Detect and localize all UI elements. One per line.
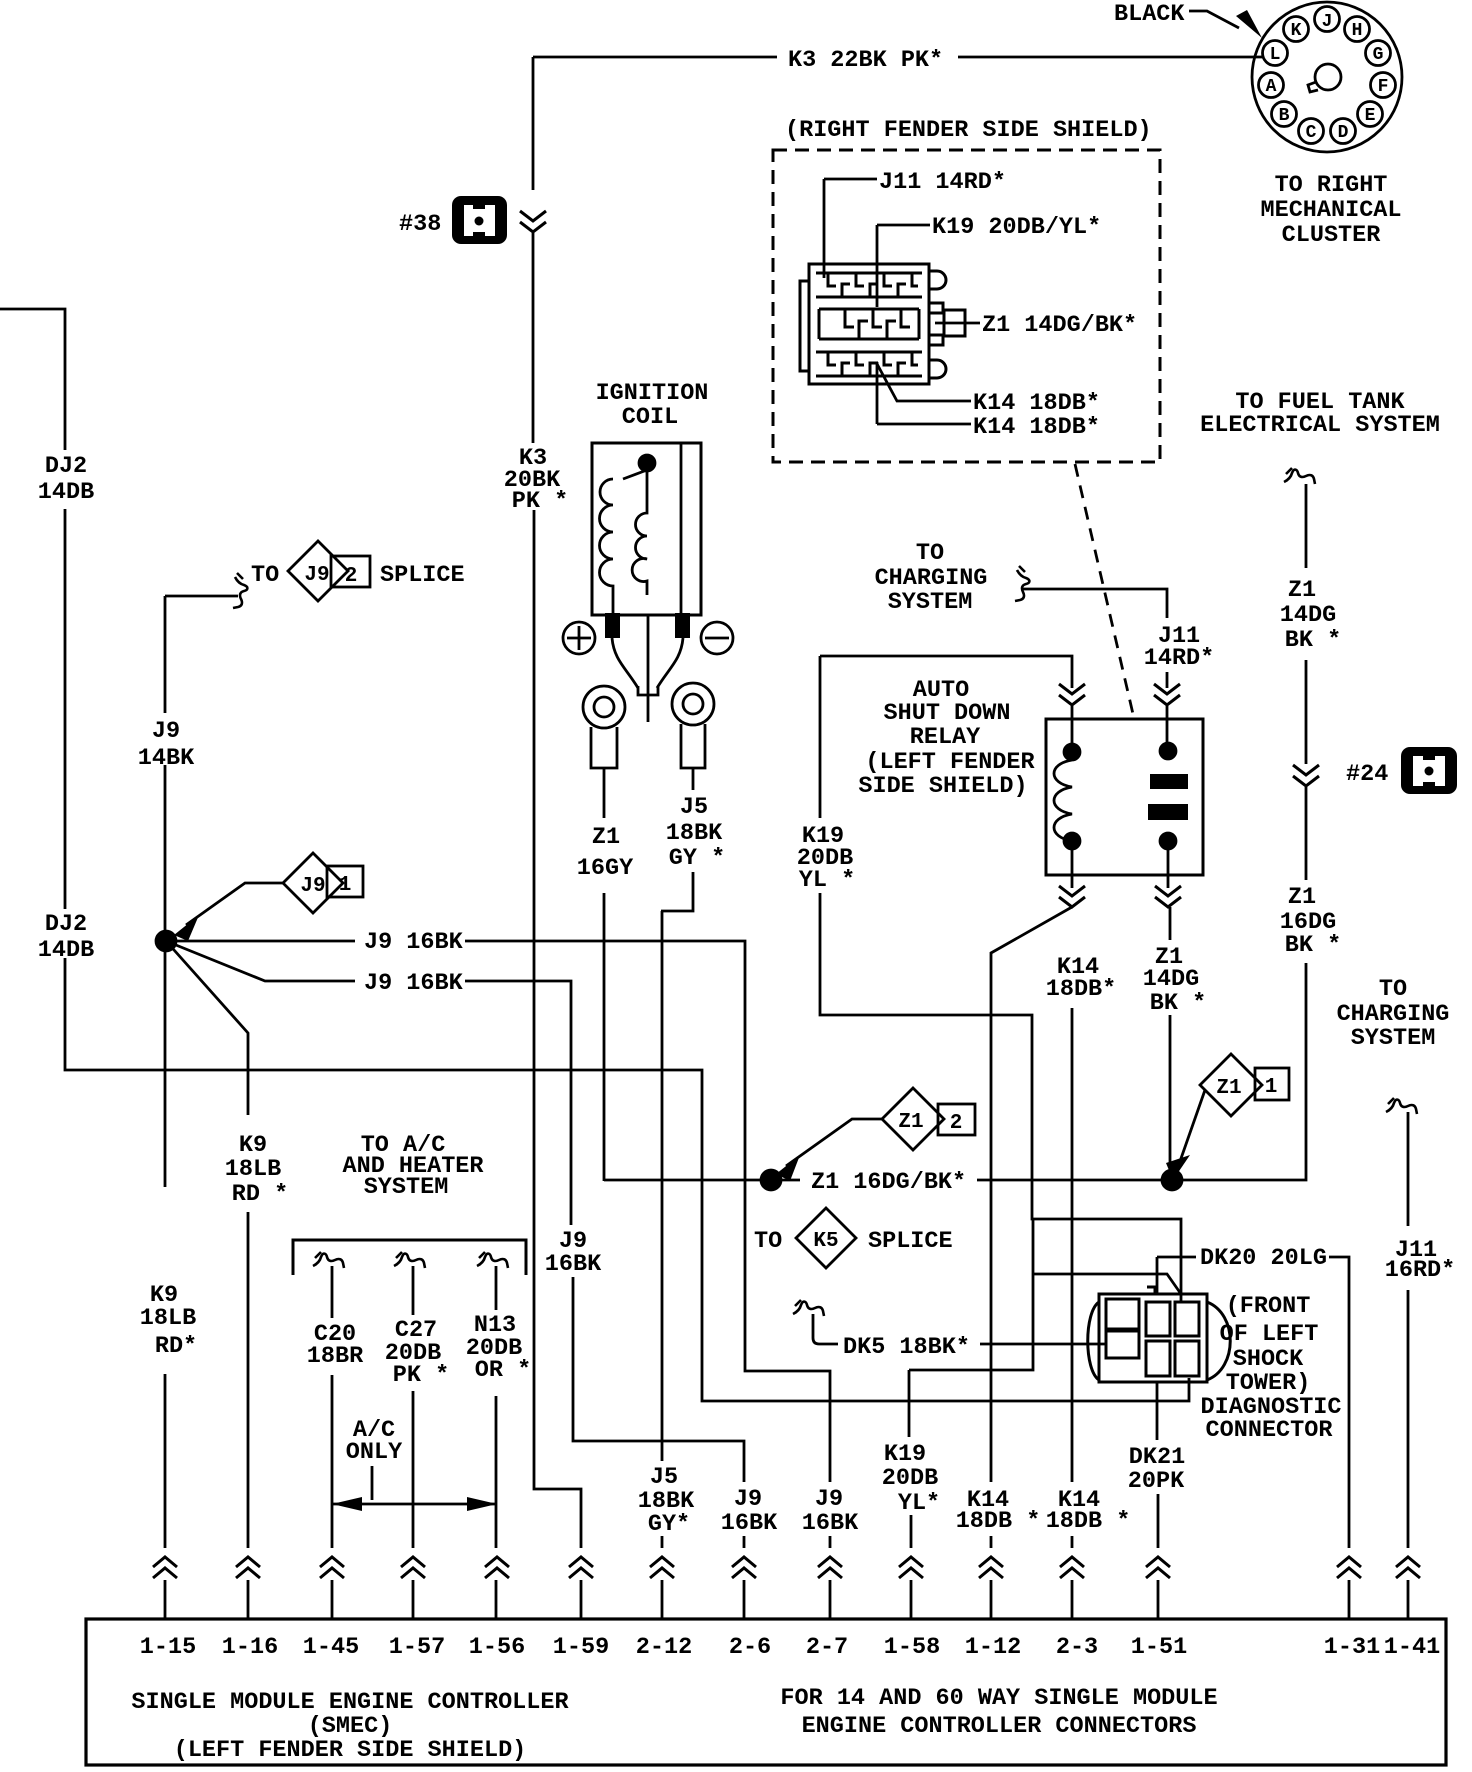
svg-text:DK20 20LG: DK20 20LG <box>1200 1245 1327 1272</box>
svg-text:2: 2 <box>950 1112 963 1135</box>
svg-text:J9: J9 <box>734 1486 762 1513</box>
svg-text:16BK: 16BK <box>545 1251 602 1278</box>
svg-text:L: L <box>1270 45 1281 65</box>
svg-text:H: H <box>1352 21 1363 41</box>
svg-text:K: K <box>1291 21 1302 41</box>
svg-text:20PK: 20PK <box>1128 1468 1185 1495</box>
svg-text:J: J <box>1322 12 1333 32</box>
svg-text:18LB: 18LB <box>225 1156 281 1183</box>
svg-text:14DG: 14DG <box>1143 966 1199 993</box>
svg-text:18BR: 18BR <box>307 1343 364 1370</box>
svg-text:18DB *: 18DB * <box>1046 1508 1131 1535</box>
svg-text:TO RIGHT: TO RIGHT <box>1275 172 1388 199</box>
svg-text:Z1: Z1 <box>1288 884 1316 911</box>
svg-text:(LEFT FENDER SIDE SHIELD): (LEFT FENDER SIDE SHIELD) <box>174 1737 527 1764</box>
svg-text:J11 14RD*: J11 14RD* <box>879 169 1006 196</box>
svg-text:YL*: YL* <box>898 1490 940 1517</box>
svg-text:SYSTEM: SYSTEM <box>1351 1025 1436 1052</box>
svg-text:MECHANICAL: MECHANICAL <box>1260 197 1401 224</box>
svg-text:16RD*: 16RD* <box>1385 1257 1456 1284</box>
svg-text:1: 1 <box>339 874 352 897</box>
svg-text:G: G <box>1373 45 1384 65</box>
svg-text:(FRONT: (FRONT <box>1226 1293 1311 1320</box>
svg-text:18LB: 18LB <box>140 1305 196 1332</box>
svg-text:TOWER): TOWER) <box>1226 1370 1311 1397</box>
svg-text:1-56: 1-56 <box>469 1634 525 1661</box>
svg-text:PK *: PK * <box>512 488 568 515</box>
svg-text:2: 2 <box>345 565 358 588</box>
svg-text:DK5 18BK*: DK5 18BK* <box>843 1334 970 1361</box>
svg-text:K19 20DB/YL*: K19 20DB/YL* <box>932 214 1101 241</box>
svg-text:DK21: DK21 <box>1129 1444 1185 1471</box>
svg-text:C: C <box>1306 123 1317 143</box>
svg-text:J9: J9 <box>815 1486 843 1513</box>
svg-text:1-31: 1-31 <box>1324 1634 1380 1661</box>
svg-text:14RD*: 14RD* <box>1144 645 1215 672</box>
svg-text:D: D <box>1338 123 1349 143</box>
svg-text:14DB: 14DB <box>38 937 94 964</box>
svg-text:J9: J9 <box>300 875 325 898</box>
svg-text:E: E <box>1365 106 1376 126</box>
svg-text:Z1 14DG/BK*: Z1 14DG/BK* <box>982 312 1137 339</box>
svg-text:TO: TO <box>754 1228 782 1255</box>
svg-text:GY*: GY* <box>648 1511 690 1538</box>
svg-text:2-3: 2-3 <box>1056 1634 1098 1661</box>
svg-text:16BK: 16BK <box>802 1510 859 1537</box>
svg-text:TO: TO <box>916 540 944 567</box>
svg-text:K19: K19 <box>884 1441 926 1468</box>
svg-text:J9: J9 <box>304 564 329 587</box>
svg-text:1-15: 1-15 <box>140 1634 196 1661</box>
svg-text:(RIGHT FENDER SIDE SHIELD): (RIGHT FENDER SIDE SHIELD) <box>785 117 1152 144</box>
svg-text:1-57: 1-57 <box>389 1634 445 1661</box>
svg-text:14DG: 14DG <box>1280 602 1336 629</box>
svg-text:SIDE SHIELD): SIDE SHIELD) <box>858 773 1027 800</box>
svg-text:J5: J5 <box>650 1464 678 1491</box>
svg-text:B: B <box>1279 106 1290 126</box>
svg-text:16BK: 16BK <box>721 1510 778 1537</box>
svg-text:2-7: 2-7 <box>806 1634 848 1661</box>
svg-text:J9 16BK: J9 16BK <box>364 929 464 956</box>
svg-text:YL *: YL * <box>799 867 855 894</box>
svg-text:RD *: RD * <box>232 1181 288 1208</box>
svg-text:J5: J5 <box>680 794 708 821</box>
svg-text:1-45: 1-45 <box>303 1634 359 1661</box>
svg-text:TO: TO <box>1379 976 1407 1003</box>
svg-text:ELECTRICAL SYSTEM: ELECTRICAL SYSTEM <box>1200 412 1440 439</box>
svg-text:SYSTEM: SYSTEM <box>364 1174 449 1201</box>
svg-text:16GY: 16GY <box>577 855 634 882</box>
svg-text:2-6: 2-6 <box>729 1634 771 1661</box>
svg-text:CONNECTOR: CONNECTOR <box>1206 1417 1334 1444</box>
svg-text:#24: #24 <box>1346 761 1388 788</box>
svg-text:1-12: 1-12 <box>965 1634 1021 1661</box>
svg-text:SPLICE: SPLICE <box>868 1228 953 1255</box>
svg-text:ONLY: ONLY <box>346 1439 403 1466</box>
svg-text:COIL: COIL <box>622 404 678 431</box>
svg-text:BK *: BK * <box>1150 990 1206 1017</box>
svg-text:BK *: BK * <box>1285 627 1341 654</box>
svg-text:Z1: Z1 <box>1288 577 1316 604</box>
svg-text:BLACK: BLACK <box>1114 1 1185 28</box>
svg-text:J9 16BK: J9 16BK <box>364 970 464 997</box>
svg-text:#38: #38 <box>399 211 441 238</box>
svg-text:1-58: 1-58 <box>884 1634 940 1661</box>
svg-text:Z1: Z1 <box>898 1111 923 1134</box>
svg-text:1-41: 1-41 <box>1384 1634 1440 1661</box>
svg-text:GY *: GY * <box>669 845 725 872</box>
svg-text:1: 1 <box>1265 1076 1278 1099</box>
svg-text:BK *: BK * <box>1285 932 1341 959</box>
svg-text:SINGLE MODULE ENGINE CONTROLLE: SINGLE MODULE ENGINE CONTROLLER <box>131 1689 569 1716</box>
svg-text:Z1: Z1 <box>1216 1077 1241 1100</box>
svg-text:K14 18DB*: K14 18DB* <box>973 390 1100 417</box>
svg-text:K14 18DB*: K14 18DB* <box>973 414 1100 441</box>
svg-text:1-51: 1-51 <box>1131 1634 1187 1661</box>
svg-text:SYSTEM: SYSTEM <box>888 589 973 616</box>
svg-text:J9: J9 <box>152 718 180 745</box>
svg-text:F: F <box>1378 77 1389 97</box>
svg-text:Z1: Z1 <box>592 824 620 851</box>
svg-text:(SMEC): (SMEC) <box>308 1713 393 1740</box>
svg-text:FOR 14 AND 60 WAY SINGLE MODUL: FOR 14 AND 60 WAY SINGLE MODULE <box>780 1685 1217 1712</box>
svg-text:K5: K5 <box>813 1230 838 1253</box>
svg-text:DJ2: DJ2 <box>45 911 87 938</box>
svg-text:18DB*: 18DB* <box>1046 976 1117 1003</box>
svg-text:1-16: 1-16 <box>222 1634 278 1661</box>
svg-text:CHARGING: CHARGING <box>1337 1001 1450 1028</box>
svg-text:18BK: 18BK <box>666 820 723 847</box>
svg-text:SHUT DOWN: SHUT DOWN <box>884 700 1011 727</box>
svg-text:TO: TO <box>251 562 279 589</box>
svg-text:ENGINE CONTROLLER CONNECTORS: ENGINE CONTROLLER CONNECTORS <box>802 1713 1197 1740</box>
svg-text:(LEFT FENDER: (LEFT FENDER <box>865 749 1035 776</box>
svg-text:Z1 16DG/BK*: Z1 16DG/BK* <box>811 1169 966 1196</box>
svg-text:CLUSTER: CLUSTER <box>1282 222 1382 249</box>
svg-text:20DB: 20DB <box>882 1465 938 1492</box>
svg-text:OR *: OR * <box>475 1357 531 1384</box>
svg-text:A: A <box>1266 77 1277 97</box>
svg-text:CHARGING: CHARGING <box>875 565 988 592</box>
svg-text:K9: K9 <box>239 1132 267 1159</box>
svg-text:SPLICE: SPLICE <box>380 562 465 589</box>
svg-text:2-12: 2-12 <box>636 1634 692 1661</box>
svg-text:DJ2: DJ2 <box>45 453 87 480</box>
svg-text:OF LEFT: OF LEFT <box>1220 1321 1319 1348</box>
svg-text:K3 22BK PK*: K3 22BK PK* <box>788 47 943 74</box>
svg-text:18DB *: 18DB * <box>956 1508 1041 1535</box>
svg-text:1-59: 1-59 <box>553 1634 609 1661</box>
svg-text:IGNITION: IGNITION <box>596 380 709 407</box>
svg-text:RELAY: RELAY <box>910 724 981 751</box>
svg-text:SHOCK: SHOCK <box>1233 1346 1304 1373</box>
svg-text:PK *: PK * <box>393 1362 449 1389</box>
svg-text:14BK: 14BK <box>138 745 195 772</box>
svg-text:14DB: 14DB <box>38 479 94 506</box>
svg-text:RD*: RD* <box>155 1333 197 1360</box>
